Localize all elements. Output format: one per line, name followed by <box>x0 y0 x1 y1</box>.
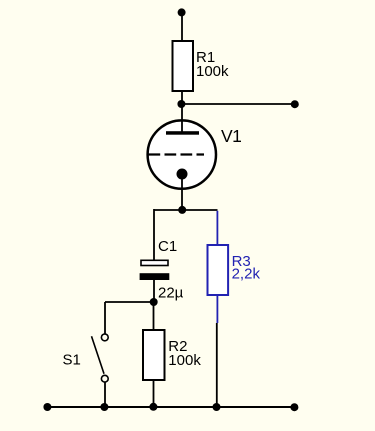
svg-text:C1: C1 <box>158 238 177 255</box>
svg-text:22µ: 22µ <box>158 284 184 301</box>
svg-text:100k: 100k <box>196 63 229 80</box>
svg-text:100k: 100k <box>168 352 201 369</box>
svg-text:V1: V1 <box>221 126 241 146</box>
svg-text:S1: S1 <box>63 352 81 369</box>
svg-text:2,2k: 2,2k <box>232 266 261 283</box>
